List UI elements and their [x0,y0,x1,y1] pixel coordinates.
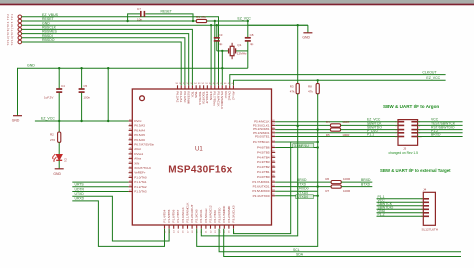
svg-text:URTS: URTS [75,183,85,187]
svg-text:P2.5/Rosc: P2.5/Rosc [204,208,208,223]
svg-text:changed on Rev 1.5: changed on Rev 1.5 [389,151,419,155]
wire EZ_VCC right [234,80,446,85]
svg-text:XIN: XIN [134,161,139,165]
wire rail joiner [107,67,109,121]
svg-text:XT2OUT: XT2OUT [205,91,209,103]
svg-text:SCL: SCL [293,248,300,252]
resistor R3 [290,24,300,127]
labels J3 right nets [431,118,456,137]
svg-text:P1.1: P1.1 [367,133,374,137]
svg-text:100R: 100R [343,189,351,193]
IC U1 MSP430F16x body [132,89,271,225]
ground symbol lower-left [12,116,22,123]
capacitor C4 [44,67,65,121]
svg-text:P4.0/TB0: P4.0/TB0 [257,175,270,179]
svg-text:47k: 47k [290,90,295,94]
wire BRXD row [275,181,331,183]
wire P1.1 row [275,136,398,138]
wire GND net from header [22,24,308,85]
svg-text:RESET: RESET [161,10,172,14]
svg-text:R7: R7 [325,189,329,193]
svg-text:R3: R3 [290,84,294,88]
svg-text:P3.6/UTXD1: P3.6/UTXD1 [253,185,270,189]
svg-text:P4.4/TB4: P4.4/TB4 [257,155,270,159]
svg-text:DVss1: DVss1 [134,152,143,156]
svg-text:CLKOUT: CLKOUT [422,70,437,74]
svg-text:TDI/TCLK: TDI/TCLK [198,91,202,106]
svg-text:DVss2: DVss2 [228,91,232,100]
svg-text:TMS: TMS [194,91,198,98]
svg-text:R2: R2 [50,132,54,136]
svg-text:P6.3/A3: P6.3/A3 [134,124,145,128]
svg-text:RST/NMI: RST/NMI [187,91,191,104]
svg-text:4p: 4p [219,42,223,46]
svg-text:4p: 4p [250,42,254,46]
wire R1 to EZ_VCC node [207,20,248,22]
wire P4.7 stub row [275,141,319,143]
connector TP1-TP7 test pads [18,15,22,44]
svg-text:R8: R8 [308,84,312,88]
svg-text:SBW & UART I/F to Argon: SBW & UART I/F to Argon [383,104,439,109]
svg-text:P1.7/TB7: P1.7/TB7 [176,209,180,222]
wire GND rail [18,67,248,116]
connector J4 [421,188,438,232]
svg-text:3.6MF/1U: 3.6MF/1U [294,144,309,148]
svg-text:100R: 100R [343,177,351,181]
resistor R6 [325,177,351,184]
wire EZ_VBUS [22,17,219,86]
capacitor C5 [79,67,91,121]
capacitor C7 [126,7,194,22]
svg-text:P1.0/TA0: P1.0/TA0 [134,175,147,179]
svg-text:P3.1/SIMO0: P3.1/SIMO0 [222,205,226,222]
svg-text:VeREF+: VeREF+ [134,171,146,175]
svg-text:GND: GND [53,172,61,176]
svg-text:GND: GND [302,36,310,40]
svg-text:P1.1/TA1: P1.1/TA1 [134,180,147,184]
crystal Q1 12MHz [217,43,248,59]
svg-text:P5.7/TBou: P5.7/TBou [213,91,217,106]
wire RESET [22,20,218,86]
svg-text:P1.4/TB4: P1.4/TB4 [162,209,166,222]
wire SBWTCK [275,124,330,126]
svg-text:100R: 100R [342,120,350,124]
svg-text:P3.3/UCLK0: P3.3/UCLK0 [231,205,235,222]
svg-text:100n: 100n [83,96,90,100]
svg-text:R6: R6 [325,177,329,181]
svg-text:R1 47k: R1 47k [196,15,206,19]
svg-text:P4.5/TB5: P4.5/TB5 [257,150,270,154]
svg-text:P5.6/ACLK: P5.6/ACLK [216,91,220,107]
svg-text:GND: GND [27,64,35,68]
svg-text:SL127L6TH: SL127L6TH [422,228,439,232]
wire P_DVCC row [275,132,398,134]
svg-text:P3.2/SOMI0: P3.2/SOMI0 [227,205,231,222]
svg-text:P2.1/TAINCLK: P2.1/TAINCLK [185,202,189,223]
label TP designators [6,14,14,46]
svg-text:D1: D1 [64,158,68,162]
wire URXD wrap under chip [72,201,164,247]
wires J3 right side [418,122,463,137]
svg-text:P1.2/TA2: P1.2/TA2 [134,185,147,189]
resistor R4 [326,120,350,127]
svg-text:P2.7/TA0: P2.7/TA0 [213,210,217,223]
resistor R1 [196,15,207,23]
wire crystal ground loop [221,50,248,86]
wire RBSMES [22,34,189,86]
ground symbol near C8 [302,33,312,40]
label UART nets [75,183,85,201]
svg-text:P1.6/TB6: P1.6/TB6 [172,209,176,222]
svg-text:12MHz: 12MHz [237,52,247,56]
wire EZ_VCC to J3 [275,121,398,123]
svg-text:P3.7/URXD1: P3.7/URXD1 [252,180,270,184]
svg-text:U1: U1 [195,147,203,153]
svg-text:SBW & UART I/F to external Tar: SBW & UART I/F to external Target [380,168,451,173]
svg-text:P4.7/TBCLK: P4.7/TBCLK [253,140,270,144]
svg-text:AVcc2: AVcc2 [231,91,235,100]
svg-text:UTXD: UTXD [75,192,85,196]
svg-text:BRXD: BRXD [361,178,371,182]
svg-text:1uF,3V: 1uF,3V [44,96,53,100]
wire R5 to J3 [341,129,398,131]
wire GND branch to symbol [248,25,308,32]
svg-text:C8: C8 [250,33,254,37]
svg-text:P2.0/ACLK: P2.0/ACLK [181,206,185,222]
svg-text:C5: C5 [83,84,87,88]
U1 left pins [129,119,155,194]
wire CLKOUT [230,75,446,86]
svg-text:P3.0/STE0: P3.0/STE0 [218,207,222,222]
svg-text:10n: 10n [137,17,142,21]
wire SDA [224,229,461,257]
wire EZ_VCC rail [35,120,129,122]
svg-text:R4: R4 [326,120,330,124]
ground symbol under LED [53,169,63,176]
wire R6 out [341,181,372,183]
svg-text:P4.3/TB3: P4.3/TB3 [257,160,270,164]
wire labelled net row [275,146,319,148]
svg-text:EZ_VCC: EZ_VCC [238,17,252,21]
wire RBSDI [22,38,185,86]
svg-text:P6.6/A6: P6.6/A6 [134,138,145,142]
labels left of R6 R7 [297,178,309,195]
svg-text:P5.0/STE1: P5.0/STE1 [255,135,270,139]
svg-text:P3.4/UTXD0: P3.4/UTXD0 [253,194,270,198]
capacitor C3 [214,24,223,51]
resistor R8 [308,79,319,130]
labels J4 nets [378,195,394,217]
svg-text:P2.2/CAOUT: P2.2/CAOUT [190,204,194,222]
label boxed net [296,195,314,199]
svg-text:P2.4/CA1: P2.4/CA1 [199,209,203,223]
capacitor C8 [245,20,254,51]
svg-text:P6.0/A0: P6.0/A0 [183,91,187,102]
svg-text:J4: J4 [423,188,427,192]
svg-text:P5.5/SMCLK: P5.5/SMCLK [220,91,224,110]
svg-text:UDTR: UDTR [75,187,85,191]
svg-text:47k: 47k [308,90,313,94]
svg-text:AVcc: AVcc [134,147,141,151]
svg-text:P6.4/A4: P6.4/A4 [134,128,145,132]
svg-text:Rosc: Rosc [224,91,228,99]
svg-text:P3.5/URXD0: P3.5/URXD0 [252,189,270,193]
svg-text:UTXD0: UTXD0 [297,195,308,199]
wire RBSDO [22,42,182,85]
wire R8 vertical lower [197,130,318,246]
svg-text:AVss: AVss [134,157,141,161]
U1 bottom pins [162,202,235,233]
svg-text:P1.2: P1.2 [378,212,385,216]
wire GND vertical to bottom pins [201,126,297,236]
wires J4 left side [377,199,424,217]
LED D1 [52,154,67,169]
wire BTXD row [275,185,331,187]
wire RBSCLK [22,29,193,85]
svg-text:J3: J3 [403,146,407,150]
label 3.6MF net [293,144,314,148]
wire UTXD wrap under chip [72,196,169,241]
svg-text:P4.2/TB2: P4.2/TB2 [257,165,270,169]
svg-text:TP14(TP7)TP5 TP1: TP14(TP7)TP5 TP1 [10,14,14,46]
U1 right pins [252,120,275,198]
svg-text:MSP430F16x: MSP430F16x [168,165,232,176]
wire to P1 pins left [72,182,128,191]
svg-text:Q1: Q1 [237,43,241,47]
svg-text:C4: C4 [61,84,65,88]
svg-text:XT2IN: XT2IN [209,91,213,100]
svg-text:P4.1/TB1: P4.1/TB1 [257,170,270,174]
wire SCL [219,229,461,252]
svg-text:EZ_VCC: EZ_VCC [41,116,55,120]
svg-text:C3: C3 [219,33,223,37]
connector J3 [395,120,422,151]
svg-text:P1.5/TB5: P1.5/TB5 [167,209,171,222]
resistor R5 [326,128,350,137]
resistor R2 [50,121,61,154]
svg-text:C7: C7 [137,7,141,11]
wire URXD0 row [275,190,318,192]
svg-text:XOUT/TCLK: XOUT/TCLK [134,166,151,170]
svg-text:EZ_VCC: EZ_VCC [426,76,440,80]
wire R7 out [341,186,372,188]
svg-text:TCK: TCK [190,91,194,98]
svg-text:SDA: SDA [296,253,304,257]
U1 top pins [175,83,235,110]
svg-text:P6.2/A2: P6.2/A2 [175,91,179,102]
label header nets [42,13,59,42]
svg-text:P6.5/A5: P6.5/A5 [134,133,145,137]
svg-text:P6.7/A7/SVSin: P6.7/A7/SVSin [134,143,154,147]
svg-text:P6.1/A1: P6.1/A1 [179,91,183,102]
svg-text:P2.3/CA0: P2.3/CA0 [195,209,199,223]
svg-text:P4.6/TB6: P4.6/TB6 [257,146,270,150]
svg-text:P2.6/ADC12: P2.6/ADC12 [208,205,212,222]
svg-text:BRXD: BRXD [431,133,441,137]
svg-text:270: 270 [50,138,55,142]
svg-text:BTXD: BTXD [361,183,371,187]
svg-text:URXD: URXD [75,197,85,201]
svg-text:TDO/TDI: TDO/TDI [202,91,206,104]
resistor R7 [325,185,351,193]
svg-text:DVcc: DVcc [134,119,142,123]
wire UTXD0 row [275,195,319,197]
labels J3 left nets [367,118,382,137]
svg-text:GND: GND [12,119,20,123]
wire SBWTDO [275,128,330,130]
svg-text:P1.3/TA3: P1.3/TA3 [134,190,147,194]
wire AVcc loop [234,142,291,234]
wire R4 to J3 [341,124,398,126]
